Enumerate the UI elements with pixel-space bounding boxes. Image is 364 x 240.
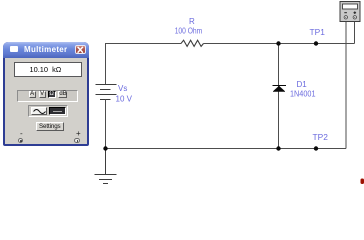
signal mode panel (AC/DC): [28, 105, 67, 117]
svg-text:Vs: Vs: [118, 84, 127, 93]
svg-text:TP1: TP1: [310, 27, 326, 37]
node TP1 junction dot: [314, 41, 318, 45]
terminal minus label: [20, 129, 23, 138]
button dB: [58, 91, 67, 98]
wire top rail from resistor to right end: [204, 43, 355, 45]
button AC (sine): [31, 107, 47, 115]
circuit schematic canvas: [0, 0, 364, 191]
node TP2 junction dot: [314, 146, 318, 150]
svg-text:TP2: TP2: [313, 132, 329, 142]
junction node at ground/battery bottom: [103, 146, 107, 150]
dialog close button: [75, 45, 86, 55]
resistor R zigzag: [181, 40, 204, 46]
wire bottom rail: [106, 148, 347, 150]
button V: [39, 91, 46, 98]
wire top rail from battery to resistor: [106, 43, 182, 45]
dialog body: [5, 58, 87, 144]
dialog title text Multimeter: [24, 45, 67, 54]
mode panel (A V Ohm dB): [17, 90, 78, 103]
button Ohm (pressed): [48, 91, 56, 98]
svg-text:R: R: [189, 17, 195, 26]
svg-text:100 Ohm: 100 Ohm: [175, 27, 203, 36]
wire left vertical battery branch lower stub: [105, 100, 107, 149]
button Settings: [36, 122, 64, 131]
junction node diode top: [276, 41, 280, 45]
junction node diode bottom: [276, 146, 280, 150]
battery source Vs plates: [96, 85, 117, 100]
svg-text:1N4001: 1N4001: [290, 90, 316, 99]
diode D1 symbol (cathode bar and triangle): [273, 86, 287, 92]
ground symbol: [95, 149, 117, 184]
red marker speck bottom right: [361, 179, 364, 185]
wire multimeter plus lead vertical: [354, 22, 356, 44]
multimeter dialog window: [3, 42, 89, 146]
multimeter instrument icon XMM1: [340, 2, 360, 22]
dialog icon: [10, 46, 18, 52]
readout display box 10.10 kOhm: [14, 62, 83, 77]
svg-text:10 V: 10 V: [116, 95, 133, 104]
button DC (pressed): [49, 107, 66, 115]
wire multimeter minus lead vertical: [345, 22, 347, 149]
diode D1 vertical branch wire: [278, 44, 280, 149]
terminal minus jack: [18, 138, 23, 143]
terminal plus jack: [74, 138, 79, 143]
button A: [29, 91, 36, 98]
terminal plus label: [76, 129, 81, 138]
dialog title bar: [3, 42, 89, 58]
svg-text:D1: D1: [297, 80, 308, 89]
wire left vertical battery branch upper stub: [105, 43, 107, 85]
